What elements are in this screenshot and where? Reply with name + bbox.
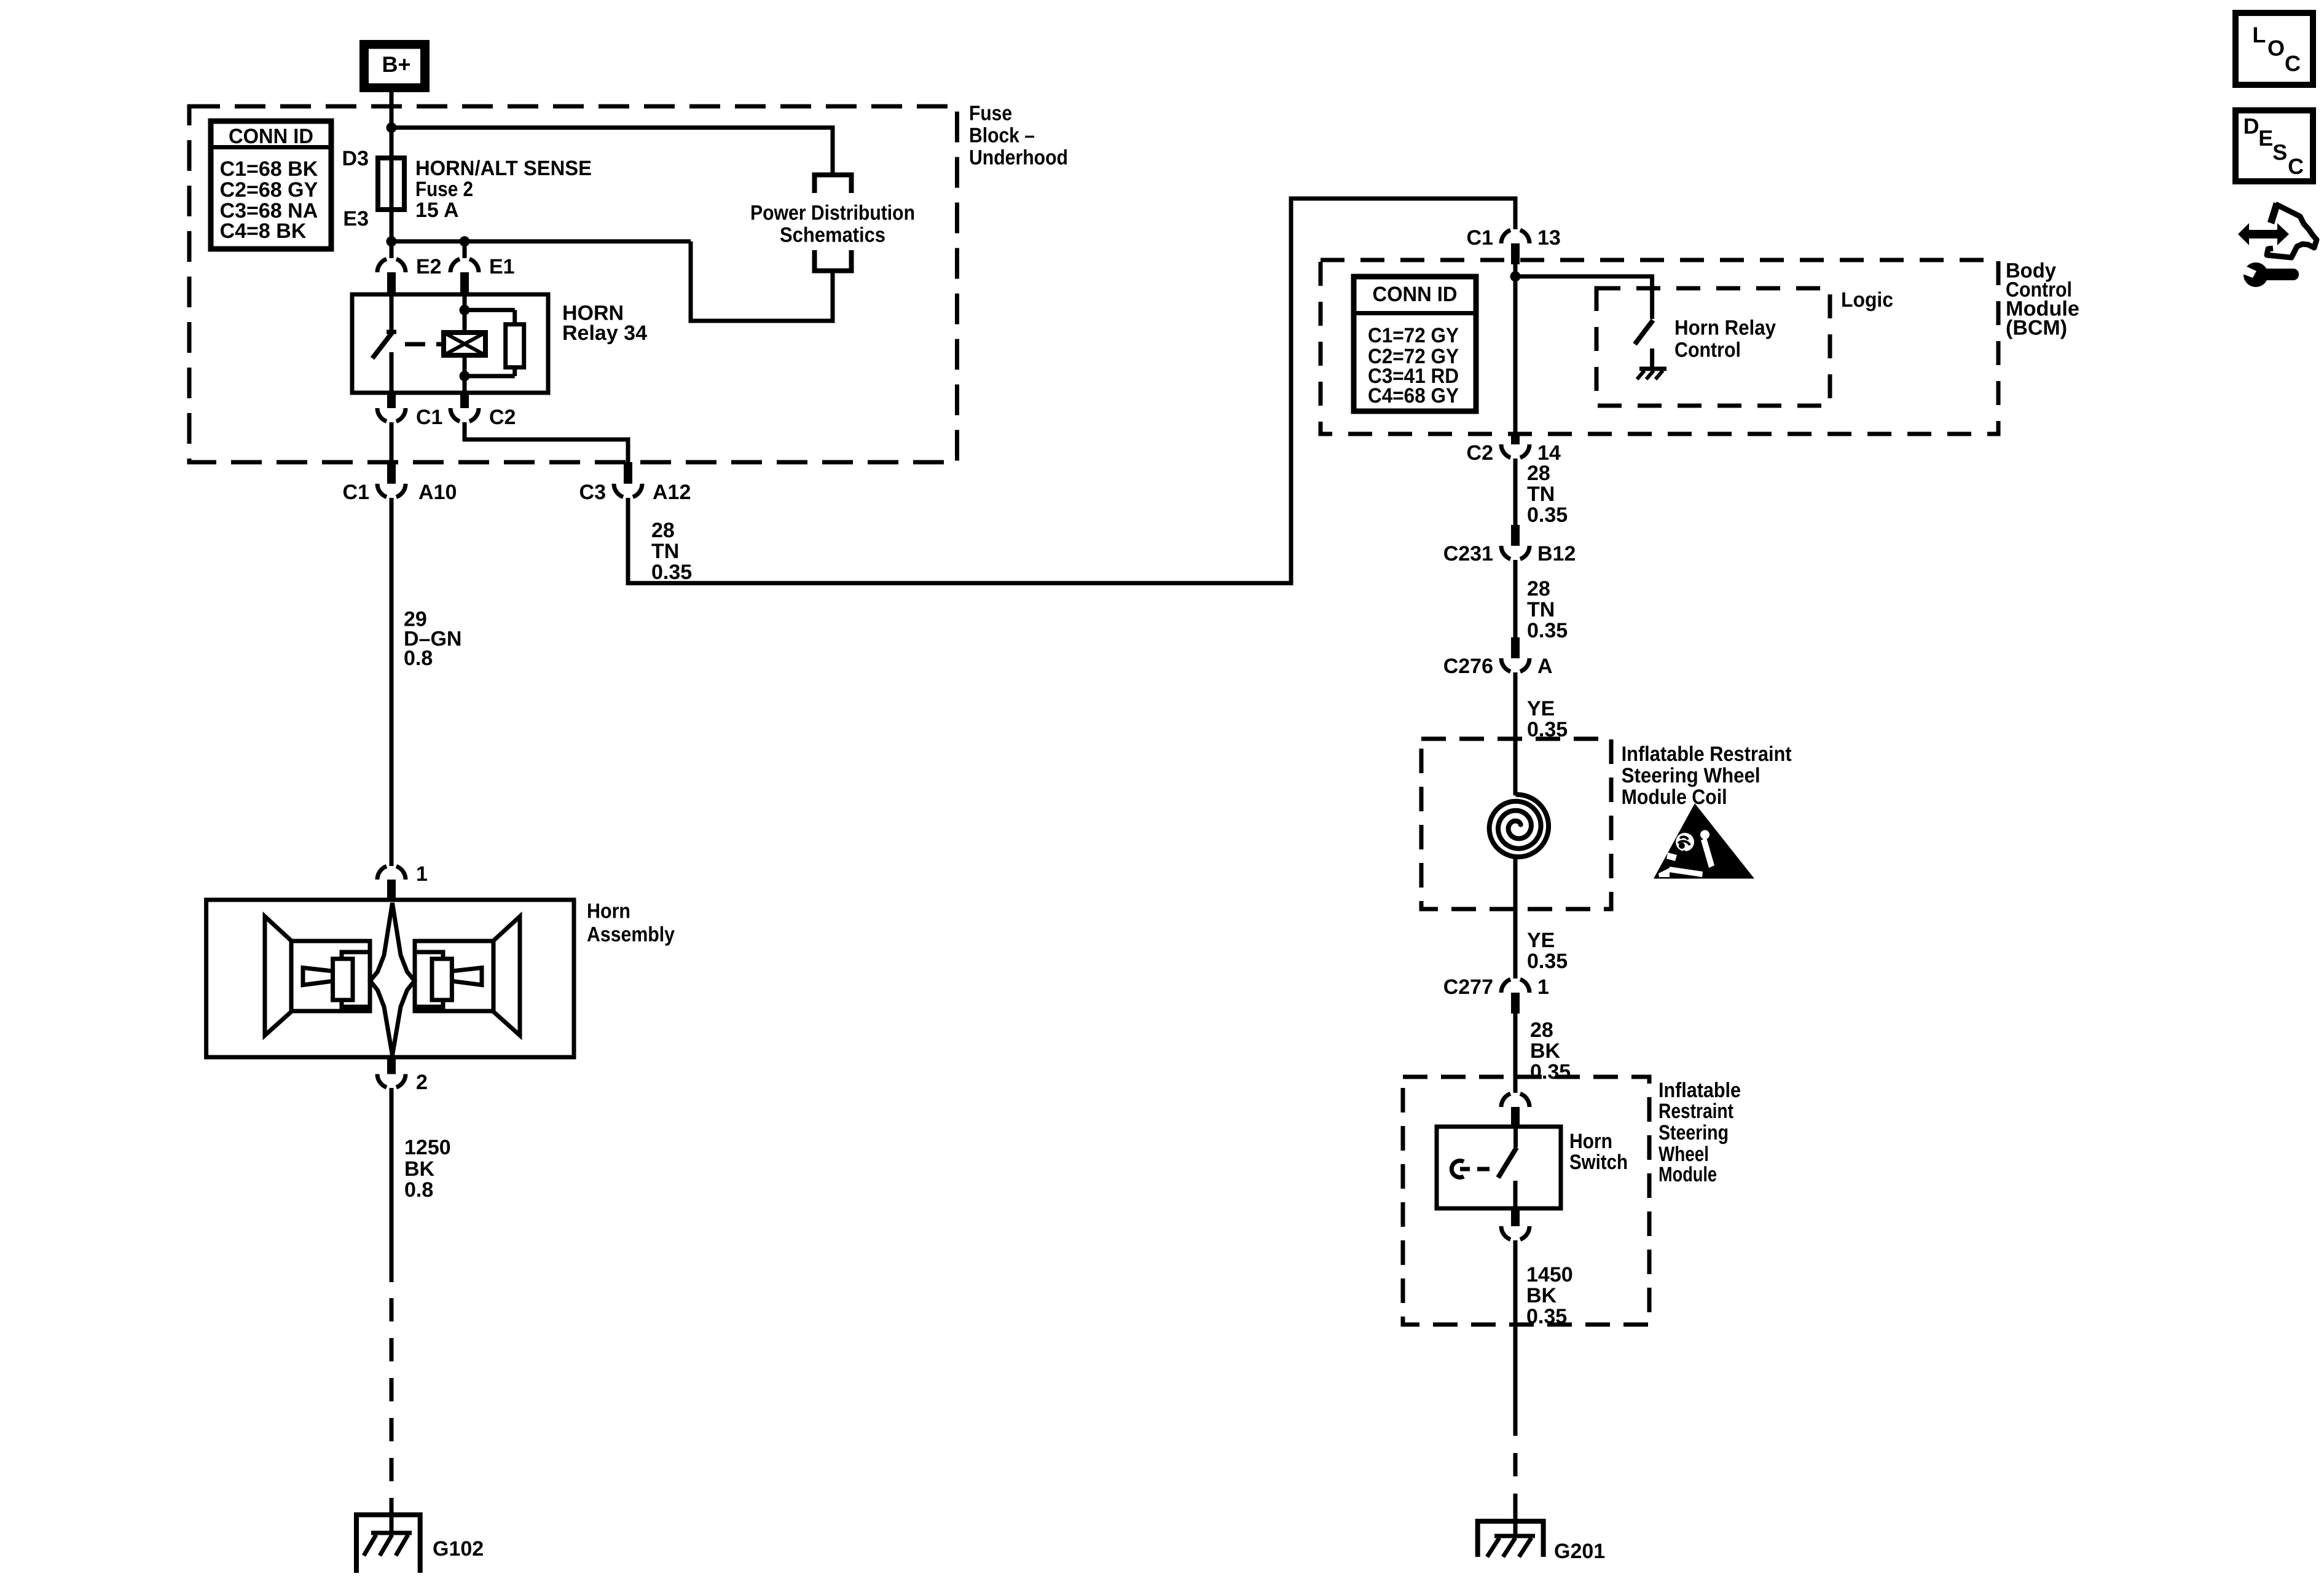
svg-text:Horn: Horn bbox=[1569, 1130, 1612, 1153]
svg-text:Underhood: Underhood bbox=[969, 146, 1068, 170]
svg-text:Block –: Block – bbox=[969, 124, 1035, 148]
svg-text:C2: C2 bbox=[1467, 441, 1493, 465]
svg-text:0.35: 0.35 bbox=[1527, 503, 1568, 527]
svg-text:C1: C1 bbox=[343, 481, 369, 504]
svg-text:O: O bbox=[2267, 36, 2285, 61]
svg-text:Assembly: Assembly bbox=[587, 923, 675, 947]
svg-text:Power Distribution: Power Distribution bbox=[750, 202, 915, 225]
svg-text:Fuse: Fuse bbox=[969, 101, 1012, 125]
svg-text:C1: C1 bbox=[1467, 226, 1493, 250]
svg-text:1: 1 bbox=[1537, 975, 1549, 999]
svg-text:HORN/ALT SENSE: HORN/ALT SENSE bbox=[415, 157, 592, 180]
svg-text:A: A bbox=[1537, 655, 1553, 678]
svg-text:C4=8 BK: C4=8 BK bbox=[220, 219, 307, 243]
svg-text:A12: A12 bbox=[653, 481, 691, 504]
svg-text:C276: C276 bbox=[1443, 655, 1493, 678]
svg-text:Schematics: Schematics bbox=[780, 224, 885, 247]
svg-text:0.35: 0.35 bbox=[1526, 1305, 1567, 1328]
svg-text:D3: D3 bbox=[342, 147, 369, 170]
svg-text:CONN ID: CONN ID bbox=[1373, 283, 1458, 306]
svg-text:TN: TN bbox=[651, 540, 679, 563]
svg-text:C277: C277 bbox=[1443, 975, 1493, 999]
svg-text:0.8: 0.8 bbox=[404, 1178, 433, 1202]
svg-text:E: E bbox=[2258, 125, 2273, 151]
svg-text:BK: BK bbox=[404, 1157, 435, 1181]
svg-text:BK: BK bbox=[1530, 1039, 1561, 1063]
svg-text:G102: G102 bbox=[433, 1537, 484, 1561]
svg-text:0.35: 0.35 bbox=[1527, 619, 1568, 642]
svg-text:CONN ID: CONN ID bbox=[229, 125, 313, 148]
svg-text:C4=68 GY: C4=68 GY bbox=[1368, 384, 1459, 408]
svg-text:Switch: Switch bbox=[1569, 1151, 1628, 1174]
svg-text:28: 28 bbox=[1527, 577, 1550, 600]
svg-text:2: 2 bbox=[416, 1071, 428, 1094]
svg-text:Fuse 2: Fuse 2 bbox=[415, 178, 473, 201]
svg-text:15 A: 15 A bbox=[415, 199, 459, 222]
svg-text:13: 13 bbox=[1537, 226, 1561, 250]
svg-text:Module Coil: Module Coil bbox=[1622, 786, 1727, 809]
svg-text:Steering Wheel: Steering Wheel bbox=[1622, 764, 1761, 787]
svg-text:28: 28 bbox=[1527, 462, 1550, 485]
svg-text:D: D bbox=[2244, 113, 2259, 138]
svg-text:Inflatable Restraint: Inflatable Restraint bbox=[1622, 742, 1792, 766]
svg-text:28: 28 bbox=[1530, 1018, 1553, 1042]
svg-text:S: S bbox=[2272, 140, 2287, 165]
svg-text:C231: C231 bbox=[1443, 542, 1493, 565]
svg-text:B+: B+ bbox=[382, 52, 410, 77]
svg-text:28: 28 bbox=[651, 519, 675, 542]
svg-text:Control: Control bbox=[1674, 339, 1741, 362]
svg-text:A10: A10 bbox=[418, 481, 457, 504]
svg-text:C: C bbox=[2285, 50, 2301, 76]
svg-text:C1=72 GY: C1=72 GY bbox=[1368, 324, 1459, 347]
svg-text:Module: Module bbox=[1659, 1163, 1717, 1186]
svg-text:E3: E3 bbox=[343, 207, 369, 230]
svg-text:1: 1 bbox=[416, 862, 428, 886]
svg-text:C2=68 GY: C2=68 GY bbox=[220, 178, 318, 202]
svg-text:0.35: 0.35 bbox=[651, 561, 692, 584]
svg-text:Restraint: Restraint bbox=[1659, 1100, 1733, 1123]
svg-text:YE: YE bbox=[1527, 697, 1555, 720]
svg-text:Logic: Logic bbox=[1841, 288, 1893, 312]
svg-text:TN: TN bbox=[1527, 482, 1555, 506]
svg-text:Steering: Steering bbox=[1659, 1121, 1729, 1144]
svg-text:C3: C3 bbox=[579, 481, 606, 504]
svg-text:B12: B12 bbox=[1537, 542, 1576, 565]
svg-text:C1=68 BK: C1=68 BK bbox=[220, 157, 318, 181]
svg-text:1250: 1250 bbox=[404, 1136, 451, 1159]
svg-text:E1: E1 bbox=[489, 255, 515, 278]
svg-text:BK: BK bbox=[1526, 1284, 1557, 1307]
svg-text:L: L bbox=[2252, 22, 2266, 47]
svg-text:YE: YE bbox=[1527, 929, 1555, 952]
svg-text:0.35: 0.35 bbox=[1527, 950, 1568, 973]
svg-text:0.35: 0.35 bbox=[1530, 1060, 1571, 1084]
svg-text:E2: E2 bbox=[416, 255, 442, 278]
svg-text:C2: C2 bbox=[489, 406, 516, 429]
svg-text:0.8: 0.8 bbox=[404, 647, 433, 670]
svg-text:Horn: Horn bbox=[587, 900, 630, 923]
svg-text:Relay 34: Relay 34 bbox=[562, 321, 647, 345]
svg-text:C: C bbox=[2288, 154, 2304, 179]
svg-text:TN: TN bbox=[1527, 598, 1555, 621]
svg-text:G201: G201 bbox=[1554, 1540, 1605, 1563]
svg-text:Inflatable: Inflatable bbox=[1659, 1079, 1741, 1102]
svg-text:C1: C1 bbox=[416, 406, 442, 429]
svg-text:(BCM): (BCM) bbox=[2006, 317, 2067, 340]
svg-text:1450: 1450 bbox=[1526, 1263, 1573, 1286]
svg-text:Horn Relay: Horn Relay bbox=[1674, 316, 1776, 339]
